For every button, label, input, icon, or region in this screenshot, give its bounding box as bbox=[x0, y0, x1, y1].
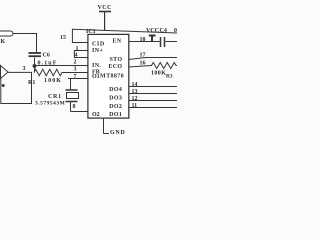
svg-text:7: 7 bbox=[74, 74, 77, 80]
svg-text:VCC: VCC bbox=[146, 28, 159, 34]
svg-text:CID: CID bbox=[92, 41, 105, 47]
svg-text:VCC: VCC bbox=[98, 5, 112, 11]
svg-text:3.579543M: 3.579543M bbox=[35, 101, 65, 107]
svg-text:GND: GND bbox=[110, 130, 125, 136]
svg-text:0: 0 bbox=[174, 28, 177, 34]
svg-text:3: 3 bbox=[74, 67, 77, 73]
svg-text:O1: O1 bbox=[92, 74, 100, 80]
svg-text:14: 14 bbox=[132, 82, 138, 88]
svg-text:10: 10 bbox=[140, 37, 146, 43]
svg-text:100K: 100K bbox=[151, 71, 166, 77]
svg-text:8: 8 bbox=[73, 104, 76, 110]
svg-text:EN: EN bbox=[112, 39, 121, 45]
svg-text:100K: 100K bbox=[44, 78, 62, 84]
svg-text:CR1: CR1 bbox=[48, 94, 62, 100]
svg-text:R3: R3 bbox=[166, 74, 173, 80]
svg-text:STO: STO bbox=[109, 57, 122, 63]
svg-text:12: 12 bbox=[132, 96, 138, 102]
svg-text:16: 16 bbox=[140, 61, 146, 67]
svg-text:R1: R1 bbox=[28, 80, 35, 86]
svg-text:15: 15 bbox=[60, 35, 66, 41]
svg-text:13: 13 bbox=[132, 89, 138, 95]
svg-text:DO1: DO1 bbox=[109, 112, 122, 118]
svg-text:IN+: IN+ bbox=[92, 48, 103, 54]
svg-text:11: 11 bbox=[132, 103, 138, 109]
svg-text:IN.: IN. bbox=[92, 63, 101, 69]
svg-text:MT8870: MT8870 bbox=[100, 73, 124, 79]
svg-text:1: 1 bbox=[76, 46, 79, 52]
svg-text:17: 17 bbox=[140, 53, 146, 59]
svg-text:IC1: IC1 bbox=[86, 29, 96, 35]
svg-text:C6: C6 bbox=[43, 53, 50, 59]
svg-text:0.1uF: 0.1uF bbox=[38, 60, 58, 66]
svg-text:DO3: DO3 bbox=[109, 96, 122, 102]
svg-text:O2: O2 bbox=[92, 112, 100, 118]
svg-text:3: 3 bbox=[23, 66, 26, 72]
svg-text:C4: C4 bbox=[160, 28, 167, 34]
svg-text:4: 4 bbox=[75, 53, 78, 59]
svg-text:DO2: DO2 bbox=[109, 104, 122, 110]
svg-text:ECO: ECO bbox=[108, 64, 122, 70]
svg-text:2: 2 bbox=[74, 60, 77, 66]
svg-text:K: K bbox=[1, 39, 6, 45]
svg-text:DO4: DO4 bbox=[109, 87, 122, 93]
